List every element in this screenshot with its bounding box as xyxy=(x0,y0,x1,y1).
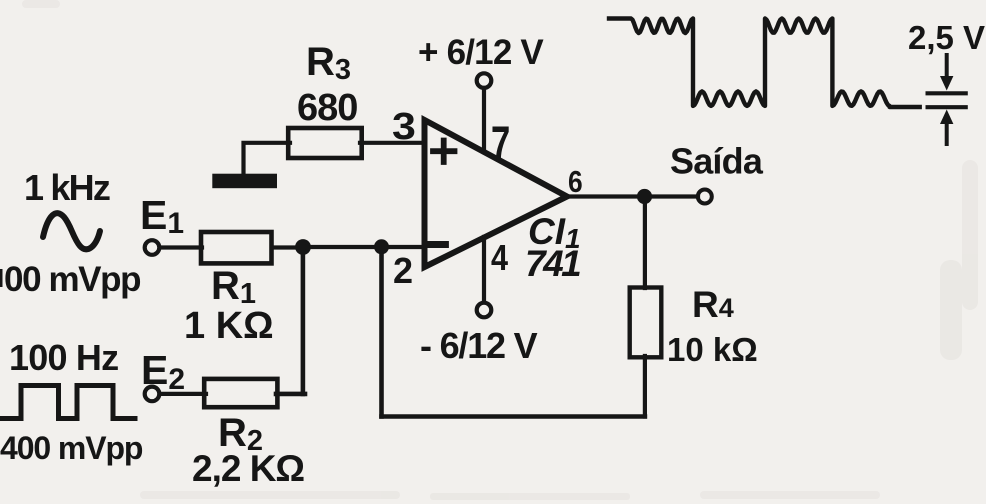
svg-text:2: 2 xyxy=(393,250,413,291)
svg-text:400 mVpp: 400 mVpp xyxy=(0,430,143,466)
svg-text:1 kHz: 1 kHz xyxy=(24,167,110,208)
output node junction dot xyxy=(637,189,652,204)
wire R4 bottom xyxy=(643,356,647,417)
pin 7 label xyxy=(491,116,510,170)
resistor R1 xyxy=(201,232,272,263)
non-inverting + mark xyxy=(433,141,455,163)
svg-text:4: 4 xyxy=(491,239,508,279)
svg-text:1 KΩ: 1 KΩ xyxy=(184,305,274,347)
svg-text:2,5 V: 2,5 V xyxy=(908,19,985,56)
sine wave symbol (1 kHz source) xyxy=(43,213,100,249)
op-amp CI1 triangle xyxy=(425,120,568,267)
pin 6 label xyxy=(568,165,583,199)
V+ terminal circle xyxy=(477,73,492,88)
wire E2 to R2 xyxy=(160,392,206,396)
resistor R3 xyxy=(288,128,362,158)
cut-off digit sliver at left edge xyxy=(0,269,3,287)
svg-text:3: 3 xyxy=(392,104,416,147)
marker bar bottom xyxy=(928,105,966,109)
output waveform (square with ripple) xyxy=(609,19,920,108)
svg-text:- 6/12 V: - 6/12 V xyxy=(420,325,538,366)
svg-text:7: 7 xyxy=(491,116,510,170)
output terminal circle xyxy=(698,190,712,204)
terminal E1 xyxy=(145,240,160,255)
svg-text:2,2 KΩ: 2,2 KΩ xyxy=(192,448,304,489)
wire output node to R4 xyxy=(643,197,647,289)
svg-text:741: 741 xyxy=(525,243,580,284)
resistor R2 xyxy=(204,379,277,407)
marker bar top xyxy=(928,91,966,95)
node B junction dot xyxy=(374,239,389,254)
wire R1 to node A xyxy=(272,245,305,249)
node A junction dot xyxy=(295,239,311,255)
inverting - mark xyxy=(431,241,446,248)
wire E1 to R1 xyxy=(160,245,202,249)
svg-text:+ 6/12 V: + 6/12 V xyxy=(418,33,544,72)
svg-text:6: 6 xyxy=(568,165,583,199)
wire pin 7 xyxy=(482,88,486,152)
svg-text:100 Hz: 100 Hz xyxy=(9,337,118,378)
pin 4 label xyxy=(491,239,508,279)
svg-text:Saída: Saída xyxy=(670,141,764,182)
resistor R4 xyxy=(630,288,662,358)
wire R3 left to ground leg xyxy=(244,143,291,172)
pin 3 label xyxy=(392,104,416,147)
wire pin 4 xyxy=(482,237,486,302)
wire R3 to pin 3 xyxy=(360,141,424,145)
wire pin 6 to output xyxy=(563,194,698,198)
svg-text:680: 680 xyxy=(297,87,357,129)
square wave symbol (100 Hz source) xyxy=(0,386,135,419)
V- terminal circle xyxy=(477,303,492,318)
wire node A to inverting input xyxy=(303,245,423,249)
wire R2 to node A leg xyxy=(276,392,305,397)
svg-text:00 mVpp: 00 mVpp xyxy=(4,260,140,299)
ripple amplitude marker bottom arrow xyxy=(945,122,949,144)
ripple amplitude marker top arrow xyxy=(945,55,949,78)
wire node A down to R2 xyxy=(301,247,306,394)
feedback wire node B down xyxy=(379,247,384,417)
ground bar xyxy=(212,174,277,189)
terminal E2 xyxy=(145,387,160,402)
svg-text:10 kΩ: 10 kΩ xyxy=(667,331,758,368)
feedback wire bottom run xyxy=(382,414,645,419)
